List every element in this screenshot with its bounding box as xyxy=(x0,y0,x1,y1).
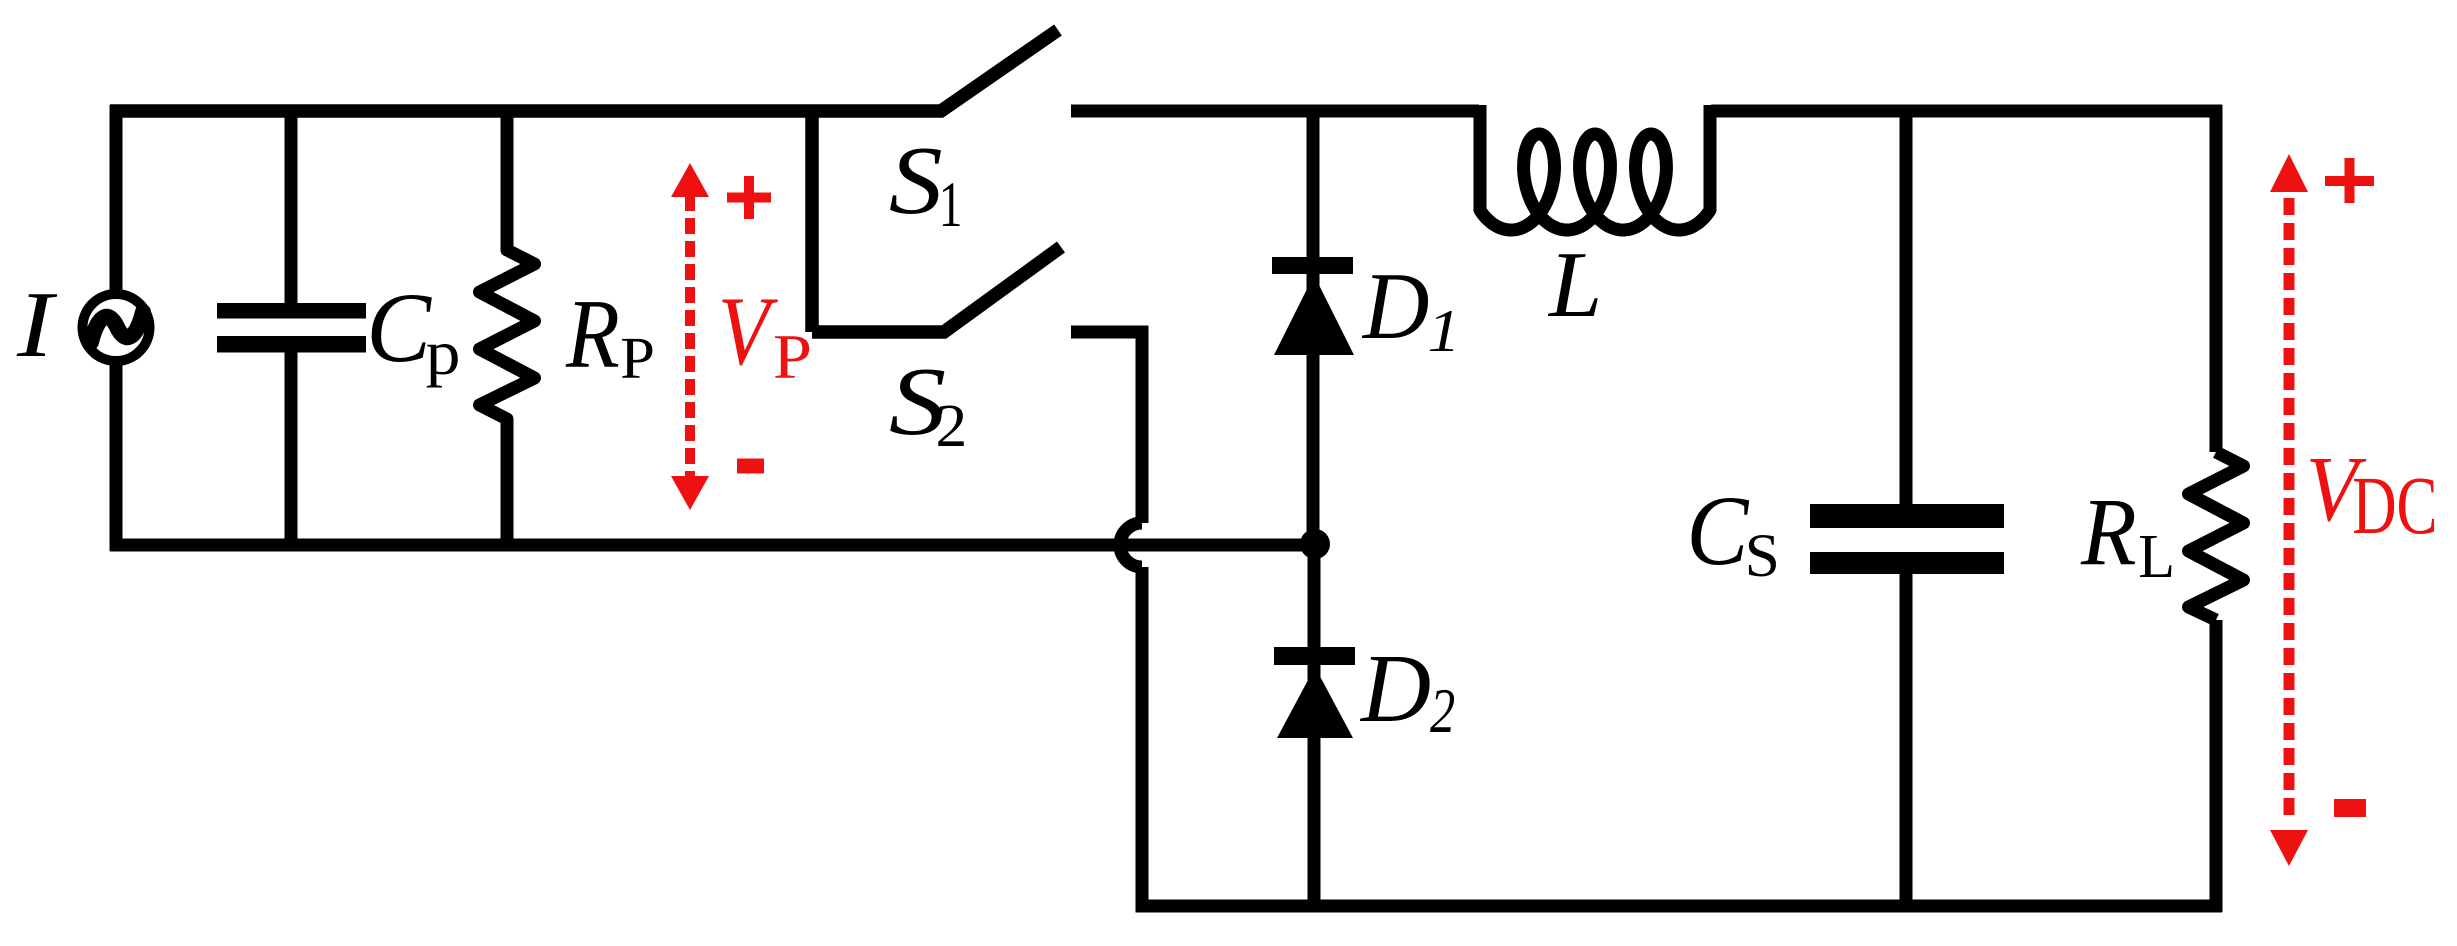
svg-text:L: L xyxy=(1547,232,1602,337)
svg-text:S: S xyxy=(889,128,943,235)
svg-text:2: 2 xyxy=(936,393,968,460)
svg-text:R: R xyxy=(565,279,620,389)
svg-text:p: p xyxy=(426,318,461,389)
svg-text:D: D xyxy=(1361,255,1430,360)
svg-text:V: V xyxy=(718,276,779,385)
svg-text:I: I xyxy=(16,272,58,376)
svg-text:1: 1 xyxy=(1427,298,1460,365)
svg-text:C: C xyxy=(1686,475,1750,586)
svg-text:1: 1 xyxy=(939,169,963,241)
svg-text:2: 2 xyxy=(1430,677,1455,747)
svg-text:P: P xyxy=(620,327,655,392)
svg-text:P: P xyxy=(773,321,812,392)
svg-text:D: D xyxy=(1359,635,1431,744)
svg-text:C: C xyxy=(366,273,432,384)
svg-text:S: S xyxy=(1745,523,1780,590)
svg-text:L: L xyxy=(2138,523,2175,591)
svg-text:R: R xyxy=(2080,480,2137,586)
svg-text:DC: DC xyxy=(2352,459,2437,551)
